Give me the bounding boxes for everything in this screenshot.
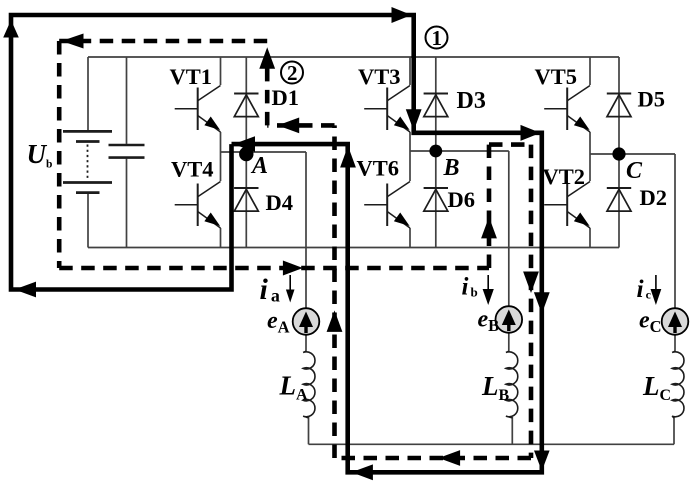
svg-text:VT5: VT5 [535, 64, 578, 89]
svg-text:VT1: VT1 [170, 64, 213, 89]
svg-text:VT4: VT4 [171, 157, 214, 182]
svg-text:2: 2 [287, 61, 298, 85]
svg-text:D6: D6 [448, 187, 476, 212]
svg-text:D5: D5 [638, 87, 666, 112]
svg-text:D4: D4 [266, 190, 294, 215]
svg-text:D2: D2 [640, 185, 668, 210]
svg-text:VT3: VT3 [358, 64, 401, 89]
svg-text:D3: D3 [457, 88, 486, 114]
svg-text:B: B [443, 155, 460, 181]
svg-text:1: 1 [432, 26, 443, 50]
svg-text:VT6: VT6 [357, 156, 400, 181]
svg-text:D1: D1 [272, 85, 300, 110]
svg-text:C: C [626, 158, 643, 184]
svg-text:A: A [250, 153, 268, 179]
svg-text:VT2: VT2 [543, 164, 586, 189]
